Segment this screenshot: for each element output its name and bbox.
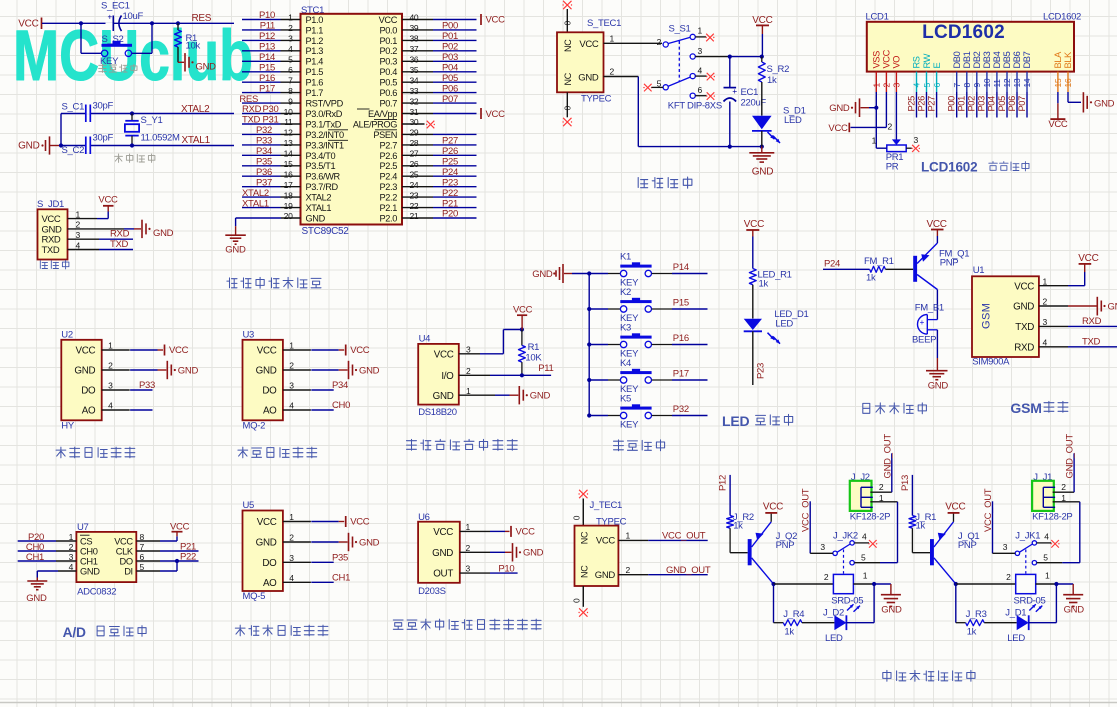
svg-text:DO: DO bbox=[120, 556, 133, 566]
svg-text:1k: 1k bbox=[967, 627, 977, 638]
svg-text:P06: P06 bbox=[442, 83, 458, 94]
svg-text:XTAL1: XTAL1 bbox=[242, 198, 269, 209]
svg-text:P20: P20 bbox=[442, 209, 458, 220]
svg-text:2: 2 bbox=[289, 361, 294, 371]
svg-text:1: 1 bbox=[863, 571, 868, 581]
svg-text:PNP: PNP bbox=[958, 540, 977, 551]
svg-text:VCC: VCC bbox=[18, 19, 38, 30]
svg-text:P11: P11 bbox=[260, 21, 275, 32]
svg-text:9: 9 bbox=[972, 83, 982, 88]
svg-text:3: 3 bbox=[466, 564, 471, 574]
svg-text:0: 0 bbox=[563, 106, 573, 111]
svg-text:P03: P03 bbox=[977, 96, 987, 112]
svg-text:P1.0: P1.0 bbox=[306, 15, 324, 25]
svg-text:VCC: VCC bbox=[828, 123, 848, 134]
svg-text:DB7: DB7 bbox=[1022, 51, 1032, 68]
svg-text:VCC: VCC bbox=[76, 346, 96, 357]
svg-text:5: 5 bbox=[861, 553, 866, 563]
svg-text:RXD: RXD bbox=[1082, 316, 1102, 327]
svg-text:4: 4 bbox=[862, 532, 867, 542]
svg-text:27: 27 bbox=[410, 149, 419, 159]
svg-text:9: 9 bbox=[288, 96, 293, 106]
svg-text:21: 21 bbox=[410, 211, 419, 221]
svg-text:VCC: VCC bbox=[1014, 281, 1034, 292]
svg-text:6: 6 bbox=[932, 83, 942, 88]
svg-text:AO: AO bbox=[82, 406, 96, 417]
svg-text:P22: P22 bbox=[442, 188, 458, 199]
svg-text:PNP: PNP bbox=[940, 257, 959, 268]
svg-text:5: 5 bbox=[922, 83, 932, 88]
svg-text:2: 2 bbox=[626, 565, 631, 575]
svg-text:2: 2 bbox=[882, 83, 892, 88]
svg-text:4: 4 bbox=[289, 573, 294, 583]
svg-text:5: 5 bbox=[288, 55, 293, 65]
svg-text:S_C2: S_C2 bbox=[62, 145, 85, 156]
svg-text:34: 34 bbox=[410, 75, 419, 85]
svg-text:7: 7 bbox=[288, 75, 293, 85]
svg-text:LCD1602: LCD1602 bbox=[922, 22, 1005, 43]
svg-text:VCC: VCC bbox=[579, 39, 599, 50]
svg-text:VCC: VCC bbox=[170, 521, 190, 532]
svg-text:36: 36 bbox=[410, 55, 419, 65]
svg-text:GND: GND bbox=[829, 103, 850, 114]
svg-text:TYPEC: TYPEC bbox=[581, 94, 612, 105]
svg-text:30pF: 30pF bbox=[93, 101, 114, 112]
svg-text:10k: 10k bbox=[186, 41, 201, 52]
svg-text:P12: P12 bbox=[718, 475, 729, 491]
svg-text:11.0592M: 11.0592M bbox=[141, 133, 181, 144]
svg-text:10K: 10K bbox=[525, 352, 542, 363]
svg-text:NC: NC bbox=[580, 565, 590, 578]
svg-text:1k: 1k bbox=[916, 521, 926, 532]
svg-text:4: 4 bbox=[108, 401, 113, 411]
svg-text:3: 3 bbox=[914, 135, 919, 145]
svg-text:P17: P17 bbox=[259, 83, 275, 94]
svg-text:VCC: VCC bbox=[350, 345, 370, 356]
svg-text:14: 14 bbox=[284, 149, 293, 159]
svg-text:40: 40 bbox=[410, 13, 419, 23]
svg-text:P24: P24 bbox=[824, 259, 840, 270]
svg-text:GND: GND bbox=[578, 72, 599, 83]
svg-text:P12: P12 bbox=[259, 31, 275, 42]
svg-text:CH1: CH1 bbox=[26, 552, 44, 563]
svg-text:0: 0 bbox=[572, 515, 582, 520]
svg-text:P25: P25 bbox=[442, 157, 458, 168]
svg-text:5: 5 bbox=[1043, 553, 1048, 563]
svg-text:OUT: OUT bbox=[433, 569, 453, 580]
svg-text:VCC: VCC bbox=[516, 527, 536, 538]
svg-text:GND: GND bbox=[256, 538, 277, 549]
svg-text:LED: LED bbox=[1007, 633, 1025, 644]
svg-text:P26: P26 bbox=[916, 96, 926, 112]
svg-text:P01: P01 bbox=[957, 96, 967, 112]
svg-text:P1.7: P1.7 bbox=[306, 88, 324, 98]
svg-text:P16: P16 bbox=[673, 333, 689, 344]
svg-text:ALE/PROG: ALE/PROG bbox=[353, 119, 397, 129]
svg-text:RES: RES bbox=[192, 13, 212, 24]
svg-text:2: 2 bbox=[879, 482, 884, 492]
svg-text:PNP: PNP bbox=[776, 540, 795, 551]
svg-text:J_R3: J_R3 bbox=[966, 609, 987, 620]
svg-text:VCC: VCC bbox=[486, 109, 506, 120]
svg-text:25: 25 bbox=[410, 169, 419, 179]
svg-text:2: 2 bbox=[610, 67, 615, 77]
svg-text:VCC: VCC bbox=[763, 502, 783, 513]
svg-text:1: 1 bbox=[466, 386, 471, 396]
svg-text:STC89C52: STC89C52 bbox=[302, 226, 350, 237]
svg-text:CH1: CH1 bbox=[332, 572, 350, 583]
svg-text:GND: GND bbox=[359, 537, 380, 548]
svg-text:P10: P10 bbox=[498, 563, 514, 574]
svg-text:P25: P25 bbox=[906, 96, 916, 112]
svg-text:P3.7/RD: P3.7/RD bbox=[306, 182, 339, 192]
svg-text:BLK: BLK bbox=[1063, 51, 1073, 69]
svg-text:P35: P35 bbox=[332, 552, 348, 563]
svg-text:VCC: VCC bbox=[434, 349, 454, 360]
svg-text:P27: P27 bbox=[442, 136, 458, 147]
svg-text:+: + bbox=[108, 13, 113, 22]
svg-text:LED: LED bbox=[784, 115, 802, 126]
svg-text:15: 15 bbox=[1053, 78, 1063, 87]
svg-text:GND: GND bbox=[80, 566, 100, 576]
svg-text:19: 19 bbox=[284, 201, 293, 211]
svg-text:GND_OUT: GND_OUT bbox=[666, 565, 711, 576]
svg-text:P0.1: P0.1 bbox=[380, 36, 398, 46]
svg-text:RXD: RXD bbox=[110, 229, 130, 240]
svg-text:BLA: BLA bbox=[1053, 51, 1063, 69]
svg-text:16: 16 bbox=[284, 169, 293, 179]
svg-text:BEEP: BEEP bbox=[912, 335, 936, 346]
svg-text:PSEN: PSEN bbox=[373, 130, 397, 140]
svg-text:XTAL2: XTAL2 bbox=[242, 188, 269, 199]
svg-text:11: 11 bbox=[284, 117, 293, 127]
svg-text:0: 0 bbox=[563, 21, 573, 26]
svg-text:31: 31 bbox=[410, 107, 419, 117]
svg-text:11: 11 bbox=[992, 79, 1002, 88]
svg-text:CLK: CLK bbox=[116, 546, 134, 556]
svg-text:P1.6: P1.6 bbox=[306, 78, 324, 88]
svg-text:10: 10 bbox=[982, 78, 992, 87]
svg-text:1: 1 bbox=[1043, 276, 1048, 286]
svg-text:P2.2: P2.2 bbox=[380, 193, 398, 203]
svg-text:P3.1/TxD: P3.1/TxD bbox=[306, 119, 342, 129]
svg-text:1k: 1k bbox=[767, 75, 777, 86]
svg-text:CS: CS bbox=[80, 536, 92, 546]
svg-text:P2.1: P2.1 bbox=[380, 203, 398, 213]
svg-text:KF128-2P: KF128-2P bbox=[1032, 512, 1072, 523]
svg-text:U3: U3 bbox=[243, 329, 255, 340]
svg-text:18: 18 bbox=[284, 190, 293, 200]
svg-text:GND: GND bbox=[433, 391, 454, 402]
svg-text:VCC: VCC bbox=[257, 346, 277, 357]
svg-text:NC: NC bbox=[563, 72, 573, 85]
svg-text:RXD: RXD bbox=[1014, 342, 1034, 353]
svg-text:S_Y1: S_Y1 bbox=[141, 115, 163, 126]
svg-text:6: 6 bbox=[698, 85, 703, 95]
svg-text:TXD: TXD bbox=[1015, 322, 1034, 333]
svg-text:3: 3 bbox=[820, 542, 825, 552]
svg-text:P04: P04 bbox=[442, 63, 458, 74]
svg-text:P06: P06 bbox=[1007, 96, 1017, 112]
svg-text:GND: GND bbox=[752, 167, 773, 178]
svg-text:DB2: DB2 bbox=[972, 51, 982, 68]
svg-text:NC: NC bbox=[563, 39, 573, 52]
svg-text:1: 1 bbox=[76, 209, 81, 219]
svg-text:4: 4 bbox=[912, 83, 922, 88]
svg-text:P33: P33 bbox=[256, 136, 272, 147]
svg-text:13: 13 bbox=[284, 138, 293, 148]
svg-text:MQ-2: MQ-2 bbox=[243, 421, 266, 432]
svg-text:GND: GND bbox=[26, 593, 47, 604]
svg-text:CH0: CH0 bbox=[332, 400, 350, 411]
svg-text:20: 20 bbox=[284, 211, 293, 221]
svg-text:J_JK1: J_JK1 bbox=[1015, 531, 1040, 542]
svg-text:P1.4: P1.4 bbox=[306, 57, 324, 67]
svg-text:28: 28 bbox=[410, 138, 419, 148]
svg-text:DO: DO bbox=[81, 386, 96, 397]
svg-text:S_JD1: S_JD1 bbox=[37, 199, 64, 210]
svg-text:P0.7: P0.7 bbox=[380, 99, 398, 109]
svg-text:GND: GND bbox=[256, 366, 277, 377]
svg-text:K1: K1 bbox=[620, 252, 631, 263]
svg-text:3: 3 bbox=[108, 381, 113, 391]
svg-text:P23: P23 bbox=[442, 177, 458, 188]
svg-text:P3.6/WR: P3.6/WR bbox=[306, 172, 341, 182]
svg-text:K4: K4 bbox=[620, 358, 631, 369]
svg-text:XTAL1: XTAL1 bbox=[182, 135, 211, 146]
svg-text:SRD-05: SRD-05 bbox=[831, 595, 863, 606]
svg-text:DB3: DB3 bbox=[982, 51, 992, 68]
svg-text:GSM: GSM bbox=[981, 303, 993, 329]
svg-text:P00: P00 bbox=[442, 21, 458, 32]
svg-text:J_D1: J_D1 bbox=[1005, 608, 1026, 619]
svg-text:KF128-2P: KF128-2P bbox=[850, 512, 890, 523]
svg-text:30: 30 bbox=[410, 117, 419, 127]
svg-text:37: 37 bbox=[410, 44, 419, 54]
svg-text:VCC: VCC bbox=[752, 15, 772, 26]
svg-text:D203S: D203S bbox=[418, 586, 446, 597]
svg-text:4: 4 bbox=[1043, 337, 1048, 347]
svg-text:3: 3 bbox=[698, 46, 703, 56]
svg-text:P3.3/INT1: P3.3/INT1 bbox=[306, 140, 344, 150]
svg-text:VO: VO bbox=[892, 56, 902, 69]
svg-text:VCC: VCC bbox=[1078, 253, 1098, 264]
svg-text:P13: P13 bbox=[259, 42, 275, 53]
svg-text:4: 4 bbox=[1044, 532, 1049, 542]
svg-text:3: 3 bbox=[289, 381, 294, 391]
svg-text:AO: AO bbox=[263, 406, 277, 417]
svg-text:3: 3 bbox=[1003, 542, 1008, 552]
svg-text:K2: K2 bbox=[620, 287, 631, 298]
svg-text:VCC: VCC bbox=[98, 195, 118, 206]
svg-text:P2.3: P2.3 bbox=[380, 182, 398, 192]
svg-text:4: 4 bbox=[289, 401, 294, 411]
svg-text:LED: LED bbox=[825, 633, 843, 644]
svg-text:VSS: VSS bbox=[872, 51, 882, 69]
svg-text:GND: GND bbox=[178, 365, 199, 376]
svg-text:30pF: 30pF bbox=[93, 133, 114, 144]
svg-text:AO: AO bbox=[263, 578, 277, 589]
svg-text:K3: K3 bbox=[620, 323, 631, 334]
svg-text:S_EC1: S_EC1 bbox=[101, 1, 130, 12]
svg-text:VCC: VCC bbox=[513, 305, 533, 316]
svg-text:1: 1 bbox=[289, 512, 294, 522]
svg-text:P01: P01 bbox=[442, 31, 458, 42]
svg-text:P1.1: P1.1 bbox=[306, 25, 324, 35]
svg-text:DB6: DB6 bbox=[1012, 51, 1022, 68]
svg-text:LCD1602: LCD1602 bbox=[921, 160, 977, 175]
svg-text:VCC: VCC bbox=[596, 536, 616, 547]
svg-text:J_TEC1: J_TEC1 bbox=[590, 500, 623, 511]
svg-text:P33: P33 bbox=[139, 380, 155, 391]
svg-text:R1: R1 bbox=[528, 342, 540, 353]
svg-text:P04: P04 bbox=[987, 96, 997, 112]
svg-text:SRD-05: SRD-05 bbox=[1014, 595, 1046, 606]
svg-text:1: 1 bbox=[626, 531, 631, 541]
svg-text:P27: P27 bbox=[926, 96, 936, 112]
svg-text:P05: P05 bbox=[997, 96, 1007, 112]
svg-text:P14: P14 bbox=[673, 262, 689, 273]
svg-text:GND: GND bbox=[153, 228, 174, 239]
svg-text:XTAL2: XTAL2 bbox=[306, 193, 332, 203]
svg-text:P02: P02 bbox=[442, 42, 458, 53]
svg-text:P30: P30 bbox=[263, 104, 279, 115]
svg-text:P2.5: P2.5 bbox=[380, 161, 398, 171]
svg-text:38: 38 bbox=[410, 34, 419, 44]
svg-text:GND: GND bbox=[1064, 605, 1085, 616]
svg-text:P36: P36 bbox=[256, 167, 272, 178]
svg-text:12: 12 bbox=[1002, 78, 1012, 87]
svg-text:DB1: DB1 bbox=[962, 51, 972, 68]
svg-text:2: 2 bbox=[1061, 482, 1066, 492]
svg-text:MCUclub: MCUclub bbox=[13, 17, 253, 96]
svg-text:EA/Vpp: EA/Vpp bbox=[368, 109, 397, 119]
svg-text:P0.2: P0.2 bbox=[380, 46, 398, 56]
svg-text:TXD: TXD bbox=[42, 245, 60, 256]
svg-text:6: 6 bbox=[288, 65, 293, 75]
svg-text:DO: DO bbox=[262, 558, 277, 569]
svg-text:P15: P15 bbox=[259, 63, 275, 74]
svg-text:P0.6: P0.6 bbox=[380, 88, 398, 98]
svg-text:39: 39 bbox=[410, 23, 419, 33]
svg-text:P2.6: P2.6 bbox=[380, 151, 398, 161]
svg-text:E: E bbox=[932, 63, 942, 69]
svg-text:+: + bbox=[732, 86, 737, 96]
svg-text:VCC: VCC bbox=[114, 536, 133, 546]
svg-text:VCC: VCC bbox=[1048, 119, 1068, 130]
svg-text:0: 0 bbox=[572, 598, 582, 603]
svg-text:P34: P34 bbox=[256, 146, 272, 157]
svg-text:P00: P00 bbox=[947, 96, 957, 112]
svg-text:FM_R1: FM_R1 bbox=[864, 256, 894, 267]
svg-text:GND: GND bbox=[225, 245, 246, 256]
svg-text:3: 3 bbox=[466, 344, 471, 354]
svg-text:P0.3: P0.3 bbox=[380, 57, 398, 67]
svg-text:P05: P05 bbox=[442, 73, 458, 84]
svg-text:2: 2 bbox=[466, 543, 471, 553]
svg-text:GND: GND bbox=[1094, 98, 1115, 109]
svg-text:P34: P34 bbox=[332, 380, 348, 391]
svg-text:U4: U4 bbox=[419, 333, 431, 344]
svg-text:P2.7: P2.7 bbox=[380, 140, 398, 150]
svg-text:3: 3 bbox=[892, 83, 902, 88]
svg-text:P07: P07 bbox=[442, 94, 458, 105]
svg-text:CH0: CH0 bbox=[80, 546, 98, 556]
svg-text:P21: P21 bbox=[442, 198, 458, 209]
svg-text:P22: P22 bbox=[180, 551, 196, 562]
svg-text:S_S1: S_S1 bbox=[669, 24, 691, 35]
svg-text:DI: DI bbox=[124, 566, 133, 576]
svg-text:15: 15 bbox=[284, 159, 293, 169]
svg-text:VCC: VCC bbox=[486, 15, 506, 26]
svg-text:S_R2: S_R2 bbox=[767, 64, 790, 75]
svg-text:P3.5/T1: P3.5/T1 bbox=[306, 161, 336, 171]
svg-text:GND: GND bbox=[595, 570, 616, 581]
svg-text:DO: DO bbox=[262, 386, 277, 397]
svg-text:GND: GND bbox=[530, 391, 551, 402]
svg-text:GND: GND bbox=[74, 366, 95, 377]
svg-text:CH1: CH1 bbox=[80, 556, 98, 566]
svg-text:P3.0/RxD: P3.0/RxD bbox=[306, 109, 343, 119]
svg-text:ADC0832: ADC0832 bbox=[77, 587, 116, 598]
svg-text:FM_B1: FM_B1 bbox=[915, 303, 944, 314]
svg-text:GSM: GSM bbox=[1010, 400, 1041, 416]
svg-text:RW: RW bbox=[922, 53, 932, 68]
svg-text:29: 29 bbox=[410, 128, 419, 138]
svg-text:1: 1 bbox=[872, 136, 877, 146]
svg-text:1k: 1k bbox=[866, 272, 876, 283]
svg-text:RS: RS bbox=[912, 56, 922, 68]
svg-text:3: 3 bbox=[1043, 317, 1048, 327]
svg-text:14: 14 bbox=[1022, 78, 1032, 87]
svg-text:SIM900A: SIM900A bbox=[972, 357, 1010, 368]
svg-text:VCC_OUT: VCC_OUT bbox=[662, 531, 706, 542]
svg-text:GND: GND bbox=[1108, 302, 1117, 313]
svg-text:P35: P35 bbox=[256, 157, 272, 168]
svg-text:VCC: VCC bbox=[744, 219, 764, 230]
svg-text:P17: P17 bbox=[673, 369, 689, 380]
svg-text:S_C1: S_C1 bbox=[62, 102, 85, 113]
svg-text:+: + bbox=[920, 318, 925, 327]
svg-text:GND: GND bbox=[196, 62, 217, 73]
svg-text:XTAL2: XTAL2 bbox=[181, 104, 210, 115]
svg-text:GND: GND bbox=[1013, 302, 1034, 313]
svg-text:TXD: TXD bbox=[242, 115, 261, 126]
svg-text:P0.5: P0.5 bbox=[380, 78, 398, 88]
svg-text:1: 1 bbox=[698, 26, 703, 36]
svg-text:P16: P16 bbox=[259, 73, 275, 84]
svg-text:1: 1 bbox=[1045, 571, 1050, 581]
svg-text:P2.4: P2.4 bbox=[380, 172, 398, 182]
svg-text:1: 1 bbox=[289, 341, 294, 351]
svg-text:2: 2 bbox=[288, 23, 293, 33]
svg-text:GND: GND bbox=[523, 548, 544, 559]
svg-text:26: 26 bbox=[410, 159, 419, 169]
svg-text:10uF: 10uF bbox=[123, 11, 144, 22]
svg-text:U1: U1 bbox=[973, 265, 985, 276]
svg-text:EC1: EC1 bbox=[741, 87, 759, 98]
svg-text:P0.0: P0.0 bbox=[380, 25, 398, 35]
svg-text:P2.0: P2.0 bbox=[380, 213, 398, 223]
svg-text:J_R4: J_R4 bbox=[783, 609, 804, 620]
svg-text:P32: P32 bbox=[673, 404, 689, 415]
svg-text:12: 12 bbox=[284, 128, 293, 138]
svg-text:GND: GND bbox=[359, 365, 380, 376]
svg-text:PR: PR bbox=[886, 162, 899, 173]
svg-text:1: 1 bbox=[872, 83, 882, 88]
svg-text:GND_OUT: GND_OUT bbox=[1065, 434, 1076, 479]
svg-text:2: 2 bbox=[888, 122, 893, 132]
